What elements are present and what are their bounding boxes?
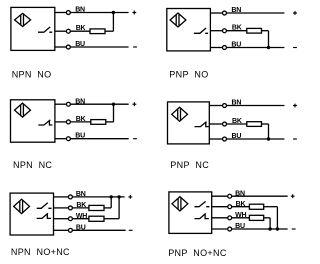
wire WH from box to terminal (NPN NO+NC) bbox=[54, 218, 69, 220]
wire BN from box to terminal (PNP NO+NC) bbox=[212, 195, 228, 197]
wire BU from box to terminal (NPN NO) bbox=[55, 46, 67, 48]
terminal circle BK (PNP NO) bbox=[223, 29, 227, 33]
wire BN from box to terminal (NPN NO+NC) bbox=[54, 196, 69, 198]
svg-text:BK: BK bbox=[232, 118, 242, 125]
wire BK to load (NPN NO+NC) bbox=[73, 207, 89, 209]
svg-text:BN: BN bbox=[76, 191, 86, 198]
wire BN to + (NPN NC) bbox=[71, 103, 129, 105]
svg-text:NPN NO+NC: NPN NO+NC bbox=[11, 247, 70, 257]
minus terminal (PNP NO) bbox=[293, 47, 297, 49]
svg-text:BK: BK bbox=[76, 25, 86, 32]
svg-text:BK: BK bbox=[76, 202, 86, 209]
wire BU from box to terminal (PNP NC) bbox=[209, 138, 222, 140]
load resistor RL2 (PNP NO+NC) bbox=[249, 215, 263, 220]
sensor box U4 (PNP NC) bbox=[168, 102, 210, 144]
wire BN from box to terminal (PNP NO) bbox=[210, 12, 222, 14]
minus terminal (PNP NC) bbox=[293, 138, 297, 140]
wire BK from box to terminal (NPN NO+NC) bbox=[54, 207, 69, 209]
diamond inner line left U3 bbox=[20, 105, 22, 115]
switch S1 NO contact bbox=[38, 27, 52, 32]
proximity symbol diamond U6 bbox=[172, 197, 188, 211]
terminal circle BU (PNP NO+NC) bbox=[228, 227, 232, 231]
svg-text:BU: BU bbox=[76, 225, 86, 232]
wire BU to - (NPN NO+NC) bbox=[73, 229, 126, 231]
diamond inner line right U4 bbox=[180, 108, 182, 120]
wire BN to + (PNP NO+NC) bbox=[232, 195, 288, 197]
load resistor RL (PNP NC) bbox=[247, 122, 262, 127]
minus terminal (NPN NC) bbox=[133, 138, 137, 140]
wire BK from box to terminal (NPN NO) bbox=[55, 30, 67, 32]
diamond inner line left U1 bbox=[20, 15, 22, 25]
wire BK from box to terminal (NPN NC) bbox=[55, 121, 67, 123]
wire WH from box to terminal (PNP NO+NC) bbox=[212, 217, 228, 219]
minus terminal (PNP NO+NC) bbox=[292, 228, 296, 230]
svg-text:BK: BK bbox=[76, 116, 86, 123]
wire BK to load (PNP NC) bbox=[227, 123, 247, 125]
svg-text:BU: BU bbox=[235, 223, 245, 230]
faller wire WH to BU (PNP NO+NC) bbox=[269, 218, 271, 229]
terminal circle BN (PNP NC) bbox=[223, 104, 227, 108]
sensor box U5 (NPN NO+NC) bbox=[10, 193, 53, 235]
diamond inner line right U5 bbox=[22, 200, 24, 212]
svg-text:PNP NC: PNP NC bbox=[170, 160, 209, 170]
diamond inner line right U3 bbox=[22, 104, 24, 116]
junction dot BN/BK (NPN NO) bbox=[112, 11, 115, 14]
wire BN to + (NPN NO+NC) bbox=[73, 196, 125, 198]
wire BK to load (PNP NO) bbox=[227, 30, 247, 32]
switch S5a NO contact bbox=[37, 203, 52, 209]
svg-text:BN: BN bbox=[75, 7, 85, 14]
terminal circle BU (PNP NC) bbox=[223, 137, 227, 141]
diamond inner line right U1 bbox=[23, 14, 25, 26]
svg-text:NPN NO: NPN NO bbox=[12, 70, 52, 80]
wire WH to load (PNP NO+NC) bbox=[232, 217, 250, 219]
sensor box U3 (NPN NC) bbox=[11, 100, 55, 142]
diamond inner line left U2 bbox=[175, 15, 177, 25]
diamond inner line left U5 bbox=[19, 201, 21, 212]
terminal circle BU (NPN NC) bbox=[66, 137, 70, 141]
svg-text:BK: BK bbox=[232, 25, 242, 32]
terminal circle BN (PNP NO) bbox=[223, 11, 227, 15]
svg-text:PNP NO: PNP NO bbox=[169, 70, 208, 80]
wire BU from box to terminal (PNP NO) bbox=[210, 47, 222, 49]
riser wire BK to BN (NPN NO) bbox=[112, 13, 114, 32]
junction dot BK/BN (NPN NO+NC) bbox=[110, 195, 113, 198]
plus terminal (NPN NC) bbox=[133, 102, 137, 106]
wire load to faller (PNP NC) bbox=[262, 123, 269, 125]
wire BU to - (PNP NC) bbox=[227, 138, 285, 140]
load resistor RL1 (NPN NO+NC) bbox=[89, 205, 104, 210]
wire WH load to riser (NPN NO+NC) bbox=[104, 218, 119, 220]
wire WH to load (NPN NO+NC) bbox=[73, 218, 89, 220]
terminal circle WH (NPN NO+NC) bbox=[68, 217, 72, 221]
wire BN to + (PNP NC) bbox=[227, 105, 285, 107]
switch S6a NO contact bbox=[195, 201, 210, 206]
plus terminal (PNP NO+NC) bbox=[291, 194, 295, 198]
minus terminal (NPN NO+NC) bbox=[129, 229, 133, 231]
wire BU to - (NPN NC) bbox=[71, 138, 129, 140]
wire BK load to riser (NPN NO+NC) bbox=[104, 207, 111, 209]
svg-text:WH: WH bbox=[76, 213, 87, 220]
plus terminal (NPN NO+NC) bbox=[128, 195, 132, 199]
proximity symbol diamond U4 bbox=[172, 107, 188, 121]
svg-text:BU: BU bbox=[75, 133, 85, 140]
diamond inner line right U6 bbox=[180, 198, 182, 210]
sensor box U2 (PNP NO) bbox=[167, 9, 211, 51]
wire load to faller (PNP NO) bbox=[262, 30, 269, 32]
terminal circle BN (NPN NO+NC) bbox=[68, 195, 72, 199]
wire WH load to faller (PNP NO+NC) bbox=[264, 217, 270, 219]
wire BK from box to terminal (PNP NO+NC) bbox=[212, 206, 228, 208]
plus terminal (PNP NC) bbox=[293, 104, 297, 108]
terminal circle BK (NPN NO) bbox=[66, 29, 70, 33]
load resistor RL (PNP NO) bbox=[247, 28, 262, 33]
load resistor RL2 (NPN NO+NC) bbox=[89, 216, 104, 221]
faller wire BK to BU (PNP NO+NC) bbox=[276, 207, 278, 229]
diamond inner line right U2 bbox=[178, 14, 180, 26]
plus terminal (PNP NO) bbox=[293, 11, 297, 15]
terminal circle BN (NPN NC) bbox=[66, 102, 70, 106]
wire BN from box to terminal (NPN NO) bbox=[55, 12, 67, 14]
terminal circle BN (PNP NO+NC) bbox=[228, 194, 232, 198]
switch S3 NC contact bbox=[38, 120, 52, 125]
switch S4 NC contact bbox=[195, 122, 209, 127]
proximity symbol diamond U1 bbox=[15, 13, 31, 26]
faller wire BK to BU (PNP NC) bbox=[268, 124, 270, 139]
svg-text:WH: WH bbox=[235, 212, 246, 219]
wire BN to + (PNP NO) bbox=[227, 12, 285, 14]
terminal circle BN (NPN NO) bbox=[66, 11, 70, 15]
junction dot BK/BU (PNP NO) bbox=[267, 46, 270, 49]
wire BN from box to terminal (PNP NC) bbox=[209, 105, 222, 107]
wire BK from box to terminal (PNP NC) bbox=[209, 123, 222, 125]
riser wire BK to BN (NPN NO+NC) bbox=[110, 197, 112, 208]
minus terminal (NPN NO) bbox=[133, 46, 137, 48]
svg-text:BU: BU bbox=[231, 42, 241, 49]
faller wire BK to BU (PNP NO) bbox=[268, 31, 270, 48]
wire BU from box to terminal (NPN NC) bbox=[55, 138, 67, 140]
wire load to riser (NPN NC) bbox=[106, 121, 114, 123]
switch S2 NO contact bbox=[194, 28, 208, 33]
svg-text:BU: BU bbox=[75, 41, 85, 48]
junction dot WH/BU (PNP NO+NC) bbox=[268, 227, 271, 230]
svg-text:BU: BU bbox=[232, 133, 242, 140]
diamond inner line left U6 bbox=[177, 199, 179, 210]
terminal circle BK (PNP NC) bbox=[223, 122, 227, 126]
wire BK from box to terminal (PNP NO) bbox=[210, 30, 222, 32]
wire BN to + (NPN NO) bbox=[71, 12, 129, 14]
svg-text:BN: BN bbox=[232, 100, 242, 107]
proximity symbol diamond U5 bbox=[14, 199, 30, 213]
proximity symbol diamond U3 bbox=[15, 103, 31, 117]
svg-text:NPN NC: NPN NC bbox=[13, 160, 52, 170]
riser wire BK to BN (NPN NC) bbox=[113, 104, 115, 122]
svg-text:BN: BN bbox=[231, 7, 241, 14]
svg-text:BN: BN bbox=[75, 98, 85, 105]
terminal circle BU (NPN NO) bbox=[66, 45, 70, 49]
junction dot BK/BU (PNP NO+NC) bbox=[276, 227, 279, 230]
diamond inner line left U4 bbox=[177, 109, 179, 119]
wire BU from box to terminal (PNP NO+NC) bbox=[212, 228, 228, 230]
proximity symbol diamond U2 bbox=[170, 13, 186, 27]
wire BU to - (PNP NO) bbox=[227, 47, 285, 49]
sensor box U1 (NPN NO) bbox=[11, 7, 55, 50]
switch S5b NC contact bbox=[37, 213, 51, 218]
terminal circle BK (NPN NC) bbox=[66, 120, 70, 124]
wire BK to load (NPN NO) bbox=[71, 30, 91, 32]
wire BN from box to terminal (NPN NC) bbox=[55, 103, 67, 105]
load resistor RL (NPN NO) bbox=[90, 29, 105, 34]
wire BK load to faller (PNP NO+NC) bbox=[264, 206, 278, 208]
wire BU to - (PNP NO+NC) bbox=[232, 228, 288, 230]
terminal circle BK (NPN NO+NC) bbox=[68, 206, 72, 210]
plus terminal (NPN NO) bbox=[132, 11, 136, 15]
terminal circle BU (PNP NO) bbox=[223, 46, 227, 50]
junction dot BK/BU (PNP NC) bbox=[267, 137, 270, 140]
wire BK to load (PNP NO+NC) bbox=[232, 206, 250, 208]
svg-text:BN: BN bbox=[235, 190, 245, 197]
wire BK to load (NPN NC) bbox=[71, 121, 91, 123]
svg-text:BK: BK bbox=[236, 201, 246, 208]
wire BU from box to terminal (NPN NO+NC) bbox=[54, 229, 69, 231]
riser wire WH to BN (NPN NO+NC) bbox=[118, 197, 120, 219]
svg-text:PNP NO+NC: PNP NO+NC bbox=[168, 248, 227, 258]
load resistor RL1 (PNP NO+NC) bbox=[249, 204, 263, 209]
terminal circle BU (NPN NO+NC) bbox=[68, 228, 72, 232]
terminal circle BK (PNP NO+NC) bbox=[228, 205, 232, 209]
junction dot BN/BK (NPN NC) bbox=[112, 103, 115, 106]
terminal circle WH (PNP NO+NC) bbox=[228, 216, 232, 220]
sensor box U6 (PNP NO+NC) bbox=[169, 192, 212, 234]
junction dot WH/BN (NPN NO+NC) bbox=[117, 195, 120, 198]
wire load to riser (NPN NO) bbox=[105, 30, 113, 32]
switch S6b NC contact bbox=[195, 213, 209, 218]
wire BU to - (NPN NO) bbox=[71, 46, 129, 48]
load resistor RL (NPN NC) bbox=[91, 120, 106, 125]
